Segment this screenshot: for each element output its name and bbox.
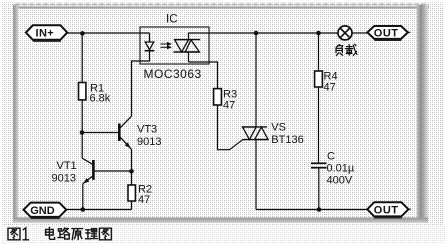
- label R4 47: [324, 71, 338, 94]
- wire lamp to OUT: [352, 32, 367, 34]
- opto LED anode wire: [149, 33, 151, 42]
- opto triac: [174, 33, 201, 63]
- svg-text:GND: GND: [30, 205, 55, 217]
- junction VT1 base tap: [129, 169, 134, 174]
- wire OUT top stub: [408, 31, 410, 33]
- junction VT1 emitter on GND bus: [81, 207, 86, 212]
- svg-text:C: C: [327, 151, 335, 163]
- svg-text:0.01µ: 0.01µ: [327, 163, 355, 175]
- resistor R3: [214, 89, 222, 105]
- svg-text:OUT: OUT: [374, 28, 399, 40]
- opto LED cathode wire to VT3 collector: [132, 51, 150, 117]
- wire VT1 emitter to GND bus: [82, 184, 84, 210]
- connector IN+: [26, 25, 67, 41]
- label 负载: [336, 44, 357, 55]
- lamp load: [338, 26, 352, 40]
- wire R3 to VS gate: [218, 105, 243, 150]
- svg-text:BT136: BT136: [271, 134, 303, 146]
- wire opto triac bottom to R3: [189, 62, 218, 89]
- wire R1 bottom to VT1 collector: [81, 100, 83, 158]
- transistor VT3: [119, 116, 131, 149]
- label R3 47: [223, 89, 237, 112]
- svg-text:400V: 400V: [327, 175, 353, 187]
- wire VT1 base: [93, 170, 131, 172]
- triac VS: [242, 127, 268, 140]
- wire OUT bottom stub: [408, 208, 410, 210]
- resistor R1: [79, 83, 86, 100]
- svg-text:IC: IC: [166, 14, 178, 26]
- wire VS top: [255, 33, 257, 127]
- svg-text:9013: 9013: [52, 172, 76, 184]
- caption 图1 电路原理图: [8, 227, 111, 239]
- IC box: [140, 27, 209, 64]
- svg-text:MOC3063: MOC3063: [144, 67, 202, 81]
- svg-text:VT3: VT3: [137, 123, 157, 135]
- connector OUT bottom: [367, 202, 408, 218]
- wire R2 bottom: [131, 201, 133, 210]
- connector OUT top: [367, 26, 408, 40]
- wire R4 top: [318, 33, 320, 71]
- label R1 6.8k: [90, 83, 111, 105]
- resistor R4: [315, 71, 323, 87]
- svg-text:VS: VS: [271, 122, 286, 134]
- transistor VT1: [82, 158, 93, 184]
- opto LED: [145, 42, 155, 51]
- svg-text:9013: 9013: [137, 136, 161, 148]
- junction R4 top: [316, 31, 321, 36]
- svg-text:VT1: VT1: [57, 160, 77, 172]
- wire R4 to C: [318, 87, 320, 163]
- wire VT3 base: [82, 132, 118, 134]
- label VS BT136: [271, 122, 303, 146]
- junction VT3 base tap: [80, 130, 85, 135]
- wire input rail upper (to R1): [81, 34, 83, 83]
- junction C bottom: [317, 207, 322, 212]
- svg-text:47: 47: [138, 194, 150, 206]
- svg-text:47: 47: [324, 82, 336, 94]
- wire C bottom: [318, 168, 320, 210]
- resistor R2: [128, 185, 135, 201]
- wire GND bus: [66, 209, 131, 211]
- wire bottom output bus: [256, 209, 367, 211]
- label C 0.01u 400V: [327, 151, 355, 187]
- junction input rail: [80, 31, 85, 36]
- connector GND: [24, 203, 67, 219]
- capacitor C: [311, 163, 327, 167]
- svg-text:OUT: OUT: [374, 205, 399, 217]
- svg-text:47: 47: [223, 99, 235, 111]
- wire output top bus: [189, 32, 339, 34]
- opto coupling arrows: [161, 42, 172, 50]
- wire VT3 emitter to R2: [131, 149, 133, 185]
- label VT3 9013: [137, 123, 161, 148]
- wire VS bottom: [255, 140, 257, 210]
- label VT1 9013: [52, 160, 77, 185]
- svg-text:IN+: IN+: [36, 28, 55, 40]
- junction VS top: [254, 31, 259, 36]
- wire IN+ to LED anode: [67, 32, 149, 34]
- svg-text:6.8k: 6.8k: [90, 93, 111, 105]
- label R2 47: [138, 184, 152, 206]
